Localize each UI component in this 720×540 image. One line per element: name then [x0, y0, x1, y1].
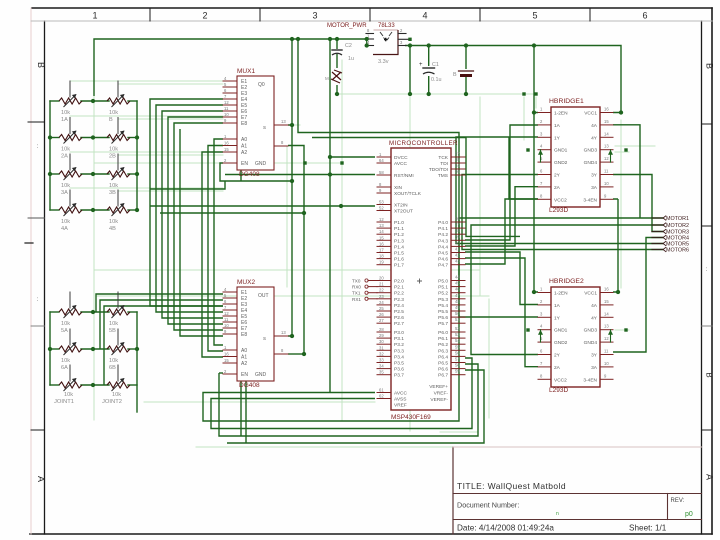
svg-text:Date: 4/14/2008 01:49:24a: Date: 4/14/2008 01:49:24a: [457, 524, 554, 533]
svg-text:49: 49: [455, 305, 460, 310]
svg-text:54: 54: [455, 163, 460, 168]
svg-text:22: 22: [379, 288, 384, 293]
wire HBRIDGE supply vertical: [534, 46, 538, 293]
svg-text:VCC1: VCC1: [584, 291, 597, 297]
junction regulator input: [365, 37, 369, 48]
svg-text:3Y: 3Y: [591, 353, 598, 359]
svg-text:45: 45: [455, 281, 460, 286]
svg-text:DG408: DG408: [239, 382, 260, 389]
svg-text:GND2: GND2: [554, 160, 568, 166]
svg-text:13: 13: [281, 330, 286, 335]
potentiometer R4 (2B 10k): [107, 118, 130, 160]
svg-text:37: 37: [455, 222, 460, 227]
svg-text:P5.4: P5.4: [438, 303, 448, 309]
svg-text:P5.6: P5.6: [438, 315, 448, 321]
svg-text:21: 21: [379, 282, 384, 287]
svg-text:2A: 2A: [554, 185, 561, 191]
svg-text:MOTOR_PWR: MOTOR_PWR: [327, 23, 367, 29]
svg-text:57: 57: [455, 357, 460, 362]
svg-text:P3.2: P3.2: [394, 342, 404, 348]
svg-text:GND4: GND4: [584, 160, 598, 166]
capacitor C1 (0.1u): [419, 62, 442, 83]
svg-text:P1.4: P1.4: [394, 244, 404, 250]
svg-text:Sheet: 1/1: Sheet: 1/1: [629, 524, 667, 533]
analog mux MUX2 (DG408): [223, 279, 288, 389]
frame column numbers: [92, 11, 647, 21]
svg-text:P4.3: P4.3: [438, 238, 448, 244]
svg-text:GND: GND: [255, 372, 267, 378]
svg-text:11: 11: [224, 106, 229, 111]
wire C2 to D1: [336, 54, 338, 68]
svg-text:TDI: TDI: [440, 161, 448, 167]
svg-text:RX1: RX1: [352, 297, 361, 302]
svg-text:3B: 3B: [109, 190, 116, 196]
svg-text:15: 15: [379, 235, 384, 240]
svg-text:P6.2: P6.2: [438, 342, 448, 348]
svg-text:58: 58: [455, 363, 460, 368]
wire MUX2 enable drop: [245, 381, 247, 443]
svg-text:11: 11: [224, 317, 229, 322]
svg-text:P1.7: P1.7: [394, 263, 404, 269]
svg-text:10k: 10k: [109, 219, 118, 225]
svg-text:S: S: [263, 125, 266, 130]
svg-text:MOTOR6: MOTOR6: [666, 248, 689, 254]
svg-text:3Y: 3Y: [591, 173, 598, 179]
svg-text:MUX2: MUX2: [237, 279, 255, 286]
svg-text:P2.5: P2.5: [394, 309, 404, 315]
svg-text:HBRIDGE2: HBRIDGE2: [549, 278, 584, 285]
svg-text:P2.3: P2.3: [394, 297, 404, 303]
svg-text:P6.0: P6.0: [438, 330, 448, 336]
svg-text:MICROCONTROLLER: MICROCONTROLLER: [389, 140, 458, 147]
svg-text:VREF-: VREF-: [434, 391, 449, 397]
potentiometer R11 (6A 10k): [59, 329, 82, 371]
regulator VR1 (3.3v): [327, 23, 410, 65]
wire MOTOR1 net: [459, 218, 663, 317]
wire bottom bus net 3: [219, 364, 478, 436]
svg-text:10k: 10k: [109, 147, 118, 153]
svg-text:5A: 5A: [61, 328, 68, 334]
svg-text:59: 59: [455, 369, 460, 374]
svg-text:P4.2: P4.2: [438, 232, 448, 238]
svg-text:55: 55: [455, 344, 460, 349]
svg-text:XT2IN: XT2IN: [394, 203, 408, 209]
svg-text:P6.6: P6.6: [438, 367, 448, 373]
svg-text:L293D: L293D: [549, 387, 568, 394]
svg-text:P4.1: P4.1: [438, 226, 448, 232]
svg-text:P1.1: P1.1: [394, 226, 404, 232]
svg-text:MUX1: MUX1: [237, 68, 255, 75]
wire MOTOR3 net: [613, 175, 663, 232]
svg-text:GND3: GND3: [584, 328, 598, 334]
svg-text:AVSS: AVSS: [394, 397, 406, 403]
svg-text:AVCC: AVCC: [394, 391, 408, 397]
svg-text:33: 33: [379, 358, 384, 363]
svg-text:P1.2: P1.2: [394, 232, 404, 238]
svg-text:P5.2: P5.2: [438, 291, 448, 297]
wire node B segment: [160, 212, 304, 214]
svg-text:16: 16: [604, 107, 609, 112]
svg-text:10k: 10k: [61, 321, 70, 327]
svg-text:50: 50: [455, 311, 460, 316]
svg-text:12: 12: [604, 156, 609, 161]
svg-text:M: M: [325, 76, 329, 81]
svg-text:34: 34: [379, 364, 384, 369]
svg-text:DVCC: DVCC: [394, 155, 408, 161]
svg-text:MOTOR2: MOTOR2: [666, 223, 689, 229]
svg-text:17: 17: [379, 248, 384, 253]
wire MUX1 output net: [288, 146, 304, 355]
svg-text:P3.1: P3.1: [394, 336, 404, 342]
svg-text:16: 16: [224, 352, 229, 357]
svg-text:TX1: TX1: [352, 291, 361, 296]
svg-text:P4.7: P4.7: [438, 263, 448, 269]
svg-text:3.3v: 3.3v: [378, 59, 389, 65]
svg-text:E8: E8: [241, 332, 247, 338]
ground symbol HBRIDGE2 right: [608, 330, 613, 342]
svg-text:4A: 4A: [591, 303, 598, 309]
wire select A1 net: [208, 146, 223, 352]
svg-text:53: 53: [455, 332, 460, 337]
svg-text:10: 10: [604, 181, 609, 186]
svg-text:P5.1: P5.1: [438, 285, 448, 291]
svg-text:32: 32: [379, 351, 384, 356]
svg-text:4A: 4A: [61, 226, 68, 232]
microcontroller left pins: [377, 152, 422, 409]
svg-text:30: 30: [379, 339, 384, 344]
H-bridge HBRIDGE1 (L293D): [538, 98, 613, 214]
svg-text:EN: EN: [241, 372, 248, 378]
svg-text:1A: 1A: [61, 117, 68, 123]
svg-text:P6.4: P6.4: [438, 354, 448, 360]
svg-text:6A: 6A: [61, 365, 68, 371]
svg-text:GND2: GND2: [554, 340, 568, 346]
svg-text:6B: 6B: [109, 365, 116, 371]
svg-text:RX0: RX0: [352, 285, 361, 290]
svg-text:58: 58: [379, 170, 384, 175]
svg-text:2A: 2A: [554, 365, 561, 371]
svg-text:56: 56: [455, 169, 460, 174]
svg-text:3A: 3A: [591, 365, 598, 371]
wire D1 to ground line: [336, 85, 338, 94]
wire RST net: [225, 174, 375, 176]
wire bottom bus net 4: [227, 370, 484, 443]
wire enable net MUX2: [219, 372, 223, 374]
wire DVCC net riser: [329, 39, 331, 393]
svg-text:10k: 10k: [61, 358, 70, 364]
svg-text:78L33: 78L33: [378, 23, 395, 29]
potentiometer R7 (4A 10k): [59, 190, 82, 232]
wire HBRIDGE enable link: [613, 199, 618, 292]
svg-text:10k: 10k: [61, 110, 70, 116]
svg-text:AVCC: AVCC: [394, 161, 408, 167]
svg-text:MOTOR1: MOTOR1: [666, 216, 689, 222]
svg-text:20: 20: [379, 276, 384, 281]
svg-text:P3.0: P3.0: [394, 330, 404, 336]
svg-text:23: 23: [379, 294, 384, 299]
svg-text:31: 31: [379, 345, 384, 350]
potentiometer R2 (B 10k): [107, 81, 130, 123]
svg-text:JOINT2: JOINT2: [102, 399, 122, 405]
svg-text:L293D: L293D: [549, 207, 568, 214]
potentiometer R14 ( ): [107, 365, 130, 391]
svg-text:GND1: GND1: [554, 148, 568, 154]
svg-text:TDO/TDI: TDO/TDI: [429, 167, 448, 173]
svg-text:64: 64: [379, 158, 384, 163]
svg-text:4Y: 4Y: [591, 135, 598, 141]
svg-text:10k: 10k: [109, 183, 118, 189]
svg-text:A2: A2: [241, 150, 247, 156]
analog mux MUX1 (DG408): [223, 68, 288, 178]
svg-text:REV:: REV:: [671, 498, 685, 504]
svg-text:P5.3: P5.3: [438, 297, 448, 303]
svg-text:P2.2: P2.2: [394, 291, 404, 297]
wire MOTOR2 net: [471, 225, 663, 355]
svg-text:29: 29: [379, 333, 384, 338]
svg-text:XT2OUT: XT2OUT: [394, 209, 413, 215]
svg-text:VCC1: VCC1: [584, 111, 597, 117]
svg-text:P3.7: P3.7: [394, 373, 404, 379]
svg-text:11: 11: [604, 169, 609, 174]
svg-text:P4.6: P4.6: [438, 257, 448, 263]
svg-text:XOUT/TCLK: XOUT/TCLK: [394, 191, 422, 197]
wire 3.3V rail right of regulator: [405, 46, 621, 113]
svg-text:38: 38: [455, 228, 460, 233]
diode D1: [325, 70, 342, 83]
svg-text:6: 6: [642, 11, 647, 21]
svg-text:P4.5: P4.5: [438, 251, 448, 257]
svg-text:Q0: Q0: [258, 82, 265, 88]
potentiometer R5 (3A 10k): [59, 154, 82, 196]
frame row letters: [36, 62, 715, 482]
svg-text:B: B: [453, 72, 457, 78]
wire mux supply vertical net: [288, 39, 292, 336]
svg-text:P2.1: P2.1: [394, 285, 404, 291]
wire MOTOR6 net: [462, 175, 663, 250]
potentiometer R12 (6B 10k): [107, 329, 130, 371]
svg-text:P1.6: P1.6: [394, 257, 404, 263]
wire select A2 net: [202, 152, 223, 357]
frame margin letter marks: [37, 144, 714, 378]
svg-text:13: 13: [604, 144, 609, 149]
svg-text:4Y: 4Y: [591, 315, 598, 321]
svg-text:3A: 3A: [591, 185, 598, 191]
wire pot grid 2 wiper risers: [96, 294, 223, 385]
potentiometer R13 ( ): [59, 365, 82, 391]
wire MOTOR4 net: [613, 238, 663, 353]
svg-text:TITLE: WallQuest Matbold: TITLE: WallQuest Matbold: [457, 481, 566, 491]
svg-text:53: 53: [379, 200, 384, 205]
svg-text:+: +: [419, 62, 423, 68]
svg-text:35: 35: [379, 370, 384, 375]
wire C1 branch: [428, 46, 430, 95]
svg-text:XIN: XIN: [394, 185, 403, 191]
wire MCU to HBRIDGE1 2A: [465, 187, 538, 246]
microcontroller right pins: [429, 151, 465, 403]
svg-text:C2: C2: [345, 43, 352, 49]
svg-text:10k: 10k: [61, 183, 70, 189]
wire HBRIDGE1 VCC2 drop: [509, 137, 538, 199]
svg-text:P6.1: P6.1: [438, 336, 448, 342]
svg-text:B: B: [705, 63, 715, 69]
svg-text:P2.7: P2.7: [394, 321, 404, 327]
wire node EN segment: [225, 180, 292, 182]
svg-text:16: 16: [379, 241, 384, 246]
ground symbol HBRIDGE2 left: [538, 330, 543, 342]
svg-text:1A: 1A: [554, 123, 561, 129]
svg-text:P2.0: P2.0: [394, 279, 404, 285]
battery B1: [453, 71, 474, 78]
wire JTAG branch: [312, 138, 520, 237]
wire select A0 net: [214, 139, 223, 345]
svg-text:B: B: [705, 372, 714, 377]
potentiometer R1 (1A 10k): [59, 81, 82, 123]
svg-text:19: 19: [379, 260, 384, 265]
svg-text:B: B: [109, 117, 113, 123]
wire pot grid 2 row lines: [50, 312, 137, 385]
svg-text:24: 24: [379, 300, 384, 305]
svg-text:4B: 4B: [109, 226, 116, 232]
svg-text:56: 56: [455, 350, 460, 355]
svg-text:1: 1: [92, 11, 97, 21]
svg-text:P1.0: P1.0: [394, 220, 404, 226]
svg-text:E8: E8: [241, 121, 247, 127]
svg-text:TCK: TCK: [438, 155, 448, 161]
potentiometer R9 (5A 10k): [59, 292, 82, 334]
svg-text:14: 14: [604, 311, 609, 316]
svg-text:DG408: DG408: [239, 171, 260, 178]
svg-text:A2: A2: [241, 361, 247, 367]
svg-text:3-4EN: 3-4EN: [583, 197, 597, 203]
uart labels TX RX: [352, 279, 377, 302]
potentiometer R8 (4B 10k): [107, 190, 130, 232]
svg-text:10k: 10k: [109, 358, 118, 364]
svg-text:P3.3: P3.3: [394, 348, 404, 354]
svg-text:GND4: GND4: [584, 340, 598, 346]
wire MUX2 ground drop: [240, 381, 242, 436]
wire MCU to HBRIDGE2 2A: [465, 258, 538, 367]
svg-text:VREF: VREF: [394, 403, 407, 409]
svg-text:P2.4: P2.4: [394, 303, 404, 309]
svg-text:61: 61: [379, 388, 384, 393]
svg-text:EN: EN: [241, 161, 248, 167]
svg-text:P2.6: P2.6: [394, 315, 404, 321]
svg-text:25: 25: [379, 306, 384, 311]
svg-text:2Y: 2Y: [554, 173, 561, 179]
svg-text:12: 12: [224, 100, 229, 105]
svg-text:1-2EN: 1-2EN: [554, 291, 568, 297]
svg-text:TMS: TMS: [438, 173, 448, 179]
svg-text:62: 62: [379, 394, 384, 399]
svg-text:14: 14: [379, 229, 384, 234]
svg-text:A0: A0: [241, 137, 247, 143]
svg-text:10k: 10k: [109, 321, 118, 327]
svg-text:VEREF+: VEREF+: [429, 384, 448, 390]
svg-text:JOINT1: JOINT1: [54, 399, 74, 405]
svg-text:Document Number:: Document Number:: [457, 501, 519, 510]
svg-text:B: B: [36, 62, 46, 68]
wire pot grid 2 left rail: [49, 312, 51, 385]
svg-text:44: 44: [455, 275, 460, 280]
ground symbol HBRIDGE1 right: [608, 150, 613, 162]
svg-text:1Y: 1Y: [554, 315, 561, 321]
svg-text:41: 41: [455, 247, 460, 252]
wire MUX1 enable corner: [150, 170, 241, 189]
svg-text:55: 55: [455, 157, 460, 162]
svg-text:4A: 4A: [591, 123, 598, 129]
svg-text:4: 4: [422, 11, 427, 21]
wire pot grid 1 left rail: [49, 101, 51, 210]
svg-text:28: 28: [379, 327, 384, 332]
wire MUX2 output net: [288, 353, 304, 355]
svg-text:P3.6: P3.6: [394, 367, 404, 373]
svg-text:52: 52: [455, 326, 460, 331]
svg-text:3: 3: [312, 11, 317, 21]
svg-text:3A: 3A: [61, 190, 68, 196]
svg-text:15: 15: [224, 147, 229, 152]
svg-text:n: n: [556, 511, 559, 517]
svg-text:43: 43: [455, 259, 460, 264]
svg-text:27: 27: [379, 318, 384, 323]
svg-text:TX0: TX0: [352, 279, 361, 284]
wire pale net mesh verticals: [94, 43, 621, 431]
wire HBRIDGE1 4A stub net: [613, 125, 640, 218]
svg-text:10k: 10k: [112, 392, 121, 398]
svg-text:P5.5: P5.5: [438, 309, 448, 315]
svg-text:P3.5: P3.5: [394, 361, 404, 367]
svg-text:14: 14: [604, 131, 609, 136]
svg-text:13: 13: [379, 223, 384, 228]
svg-text:1Y: 1Y: [554, 135, 561, 141]
svg-text:5: 5: [532, 11, 537, 21]
wire pot grid 1 right rail: [136, 101, 138, 210]
svg-text:P4.4: P4.4: [438, 244, 448, 250]
wire XT2 net to MCU: [150, 205, 375, 207]
svg-text:A1: A1: [241, 355, 247, 361]
svg-text:S: S: [263, 336, 266, 341]
svg-text:10: 10: [224, 112, 229, 117]
svg-text:40: 40: [455, 240, 460, 245]
wire pot grid 2 right rail: [136, 312, 138, 412]
wire pot grid 1 row lines: [50, 101, 137, 210]
svg-text:10k: 10k: [109, 110, 118, 116]
wire enable net MUX1: [220, 163, 225, 181]
svg-text:P5.7: P5.7: [438, 321, 448, 327]
wire MOTOR5 net: [456, 137, 663, 244]
svg-text:5B: 5B: [109, 328, 116, 334]
svg-text:10: 10: [224, 323, 229, 328]
potentiometer R6 (3B 10k): [107, 154, 130, 196]
svg-text:A1: A1: [241, 144, 247, 150]
svg-text:10k: 10k: [61, 219, 70, 225]
svg-text:36: 36: [455, 216, 460, 221]
svg-text:C1: C1: [432, 62, 439, 68]
svg-text:P1.3: P1.3: [394, 238, 404, 244]
wire VCC top rail left: [94, 39, 367, 96]
svg-text:MSP430F169: MSP430F169: [391, 414, 431, 421]
microcontroller origin cross: [417, 279, 422, 284]
wire MCU to HBRIDGE1 1A: [465, 125, 538, 240]
svg-text:OUT: OUT: [258, 293, 269, 299]
ground symbol HBRIDGE1 left: [538, 150, 543, 162]
wire DVCC pin link: [330, 156, 375, 158]
svg-text:18: 18: [379, 254, 384, 259]
svg-text:VEREF-: VEREF-: [430, 397, 448, 403]
svg-text:P5.0: P5.0: [438, 279, 448, 285]
frame column ticks: [150, 8, 590, 21]
svg-text:GND3: GND3: [584, 148, 598, 154]
svg-text:2B: 2B: [109, 154, 116, 160]
